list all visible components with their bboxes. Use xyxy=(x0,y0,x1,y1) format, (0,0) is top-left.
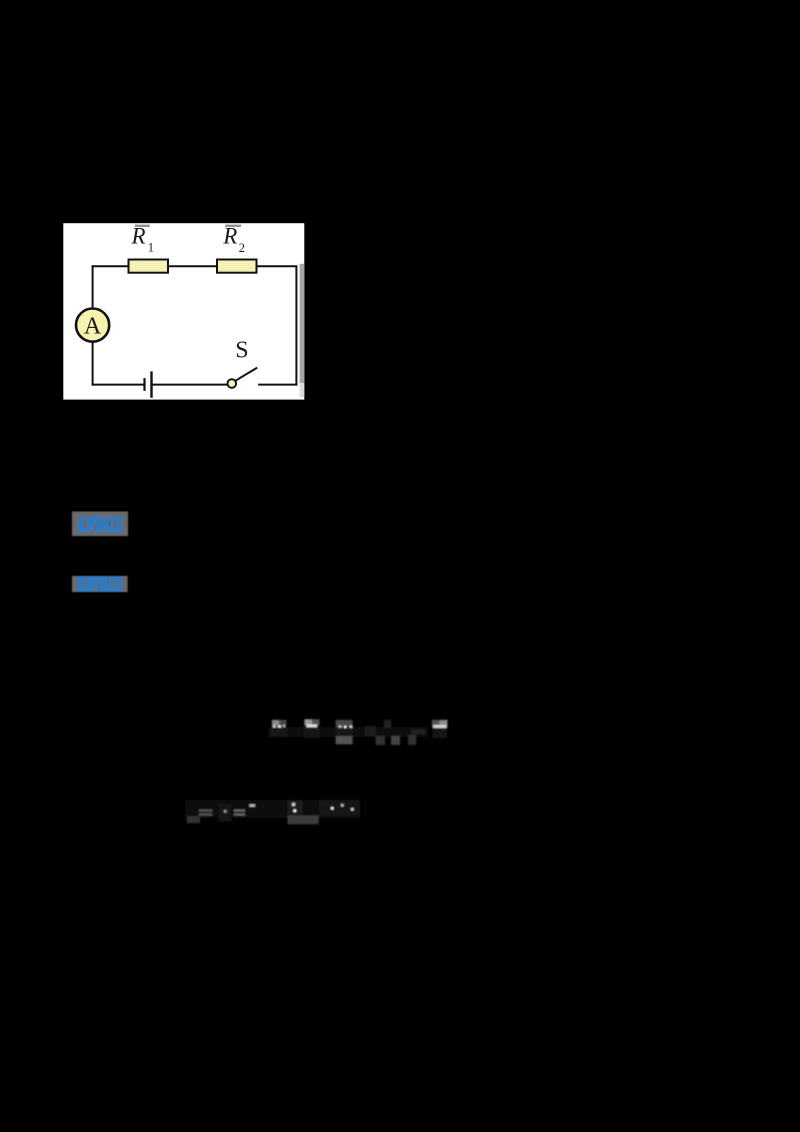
wire bottom middle xyxy=(152,384,228,386)
wire left xyxy=(92,265,94,309)
svg-text:1: 1 xyxy=(148,240,154,254)
scrollbar strip xyxy=(300,264,305,398)
svg-text:R: R xyxy=(222,224,237,249)
ammeter A1 xyxy=(76,309,109,342)
wire bottom left xyxy=(92,384,145,386)
artifact mark above R2 xyxy=(225,225,241,227)
svg-text:A: A xyxy=(84,314,102,340)
tag answer xyxy=(72,512,128,537)
circuit panel xyxy=(63,223,304,399)
resistor R1 xyxy=(129,260,169,273)
resistor R2 xyxy=(217,260,257,273)
switch S xyxy=(228,368,258,388)
formula ghost 2 xyxy=(185,800,360,824)
artifact mark above R1 xyxy=(135,225,150,227)
label R1 xyxy=(131,224,155,255)
formula ghost 1 xyxy=(268,719,448,745)
label R2 xyxy=(222,224,245,255)
svg-text:S: S xyxy=(235,338,248,364)
tag analysis xyxy=(72,576,128,592)
battery B1 xyxy=(145,371,152,397)
svg-text:2: 2 xyxy=(239,241,245,255)
wire right xyxy=(295,266,297,385)
wire left lower xyxy=(92,341,94,386)
wire top xyxy=(92,265,298,267)
svg-text:R: R xyxy=(131,224,146,249)
wire bottom right xyxy=(258,384,297,386)
